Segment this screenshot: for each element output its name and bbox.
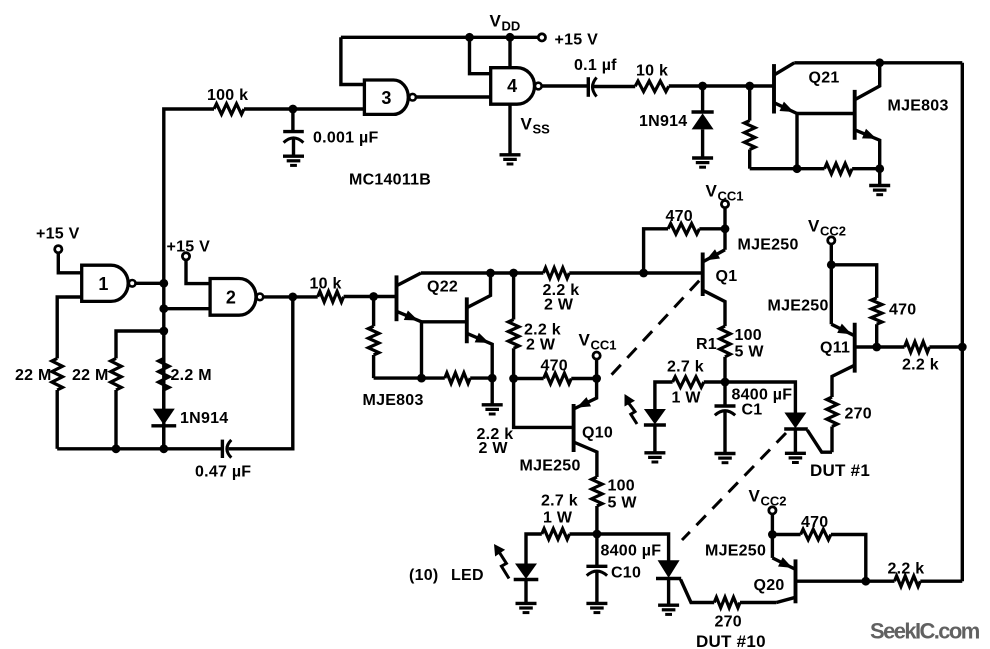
label 22 M (middle) (72, 367, 109, 384)
wire Q21a emitter down (795, 114, 798, 169)
svg-text:2.7 k: 2.7 k (541, 493, 578, 510)
label 270 (DUT10) (715, 614, 742, 631)
wire 22M middle to bottom rail (114, 390, 117, 449)
label MJE250 (Q1) (738, 237, 799, 254)
label Q1 (716, 268, 738, 285)
svg-text:MJE250: MJE250 (738, 237, 799, 254)
label Q11 (820, 340, 850, 357)
transistor Q11 base bar (853, 323, 857, 373)
wire 270 to DUT1 gate (830, 427, 833, 453)
transistor Q21a emitter (774, 102, 797, 114)
dashed link Q1 to LED (610, 281, 699, 377)
label +15 V (gate 2) (167, 239, 211, 256)
wire Q21a emitter to Q21b base (797, 112, 855, 115)
resistor 470 (Q20) (801, 529, 831, 540)
junction (node A) (721, 378, 730, 387)
wire cap to 10k (594, 85, 635, 88)
svg-text:MC14011B: MC14011B (349, 172, 431, 189)
resistor 2.2 k 2 W (Q22 emitter) (445, 373, 470, 384)
label gate 2 pin number (226, 288, 236, 308)
wire LED1 to ground (653, 425, 656, 452)
junction (827, 260, 836, 269)
svg-text:Q10: Q10 (582, 425, 613, 442)
transistor Q20 collector (776, 597, 795, 602)
label Vcc2 (Q11) (808, 217, 846, 239)
transistor Q21a base bar (772, 64, 776, 113)
svg-text:1 W: 1 W (543, 510, 573, 527)
resistor 100 5 W (Q10) (592, 477, 603, 506)
svg-text:CC1: CC1 (591, 338, 617, 353)
junction (288, 293, 297, 302)
svg-text:R1: R1 (696, 336, 717, 353)
label 470 (Q20) (801, 514, 828, 531)
transistor Q21a collector (774, 63, 794, 75)
label 1N914 (top) (639, 113, 687, 130)
svg-text:MJE803: MJE803 (888, 98, 949, 115)
wire 2.2M to diode (162, 390, 165, 409)
wire Vcc2 down (830, 244, 833, 324)
label 22 M (left) (15, 367, 52, 384)
svg-text:3: 3 (381, 88, 391, 108)
label 2.7 k (LED10) (541, 493, 578, 510)
label C10 (611, 565, 641, 582)
junction (875, 58, 884, 67)
svg-text:470: 470 (889, 302, 916, 319)
wire node to 22M (middle) (116, 331, 164, 358)
junction (639, 269, 648, 278)
junction (node 10) (593, 530, 602, 539)
LED 1 light arrow (625, 394, 638, 424)
svg-text:0.47 µF: 0.47 µF (195, 464, 251, 481)
wire 270 to Q20 collector (740, 601, 776, 604)
resistor 270 (DUT10) (714, 597, 740, 608)
label 2 W (vertical) (526, 337, 556, 354)
power terminal +15 V (gate 1) (55, 246, 62, 253)
wire Vcc2 node to 470 (Q20) (772, 533, 800, 536)
svg-text:Q1: Q1 (716, 268, 738, 285)
wire bottom rail left (57, 447, 222, 450)
resistor 2.7 k 1 W (LED10) (542, 529, 570, 540)
label 2.2 k (emitter) (477, 426, 514, 443)
svg-text:MJE803: MJE803 (363, 392, 424, 409)
resistor 2.2 k 2 W (rail) (543, 268, 569, 279)
wire +15V to gate1 upper input (58, 253, 81, 273)
svg-text:10 k: 10 k (310, 276, 342, 293)
junction (721, 224, 730, 233)
nand gate U1 (82, 265, 136, 301)
junction (509, 269, 518, 278)
svg-text:22 M: 22 M (15, 367, 52, 384)
transistor Q22b collector (467, 273, 491, 308)
ground (Q22) (482, 405, 503, 414)
capacitor 0.001 uF stem (291, 109, 294, 132)
wire to ground (Q22) (491, 378, 494, 404)
wire +15V to gate2 upper input (186, 260, 210, 284)
capacitor 0.001 uF lower stem (292, 138, 295, 156)
svg-text:2.2 k: 2.2 k (888, 561, 925, 578)
wire emitter res to gnd node (852, 167, 880, 170)
resistor 10 k (gate2 output) (318, 291, 344, 302)
svg-text:1: 1 (98, 274, 108, 294)
label VSS (521, 115, 551, 137)
resistor 10 k (top) (635, 81, 669, 92)
diode 1N914 (top) (692, 86, 714, 157)
wire 470 to base node (875, 324, 878, 347)
svg-text:100 k: 100 k (207, 87, 248, 104)
svg-text:0.1 µf: 0.1 µf (574, 57, 617, 74)
svg-text:Q21: Q21 (809, 70, 840, 87)
wire 470 to Vcc1 node (571, 377, 596, 380)
capacitor 0.47 uF (222, 440, 231, 458)
label 5 W (R1) (735, 344, 765, 361)
ground (1N914 top) (692, 158, 713, 167)
wire to 470 (Q10) (514, 377, 544, 380)
wire gate4 output (542, 84, 589, 87)
label 8400 uF (C1) (732, 387, 793, 404)
svg-text:+15 V: +15 V (167, 239, 211, 256)
svg-text:Q22: Q22 (427, 279, 458, 296)
junction (159, 304, 168, 313)
svg-text:CC2: CC2 (761, 494, 787, 509)
transistor Q1 collector (703, 290, 725, 326)
wire 10k to Q21 base (669, 84, 774, 87)
ground (gate 4 VSS) (500, 155, 521, 164)
label 10 k (top) (636, 63, 668, 80)
ground (DUT10) (658, 605, 679, 614)
wire Q22a emitter down (420, 322, 423, 378)
wire node10 to DUT10 (597, 534, 669, 561)
wire collector rail (Q22 to 2.2k) (421, 271, 543, 274)
label 0.47 uF (195, 464, 251, 481)
label gate 1 pin number (98, 274, 108, 294)
wire nodeA to 2.7k (704, 380, 725, 383)
svg-text:MJE250: MJE250 (705, 543, 766, 560)
junction (861, 577, 870, 586)
label 270 (Q11) (845, 406, 872, 423)
svg-text:2: 2 (226, 288, 236, 308)
svg-text:1N914: 1N914 (180, 410, 228, 427)
wire Vcc1 to Q1 emitter node (723, 208, 726, 250)
wire Q21 collector rail (794, 61, 962, 64)
junction (592, 374, 601, 383)
label MC14011B (349, 172, 431, 189)
label VDD (490, 12, 521, 34)
transistor Q10 emitter (574, 379, 597, 410)
junction (958, 343, 967, 352)
transistor Q22a emitter (397, 311, 422, 322)
resistor R1 100 5 W (720, 326, 731, 357)
svg-text:DUT #10: DUT #10 (696, 632, 766, 649)
wire DUT10 cathode to ground (667, 579, 670, 605)
wire emitter resistor to ground node (470, 376, 492, 379)
ground (0.001 uF) (283, 156, 304, 165)
label 2.2 M (171, 367, 212, 384)
SCR DUT #1 (784, 413, 808, 430)
resistor 22 M (left) (52, 358, 63, 390)
svg-text:DD: DD (502, 19, 521, 34)
svg-text:V: V (808, 217, 820, 236)
label 1 W (LED10) (543, 510, 573, 527)
label 2 W (emitter) (479, 440, 509, 457)
label Q21 (809, 70, 840, 87)
nand gate U3 (364, 80, 416, 114)
transistor Q20 emitter (772, 557, 795, 569)
junction (159, 327, 168, 336)
ground (DUT1) (785, 453, 806, 462)
label R1 (696, 336, 717, 353)
wire to ground (Q21) (878, 169, 881, 185)
transistor Q22b base bar (465, 297, 469, 343)
svg-text:CC1: CC1 (718, 189, 744, 204)
wire Q11 base to right rail (855, 345, 905, 348)
resistor 2.2 k (Q11) (905, 342, 930, 353)
wire 100k to gate 3 lower input (244, 107, 364, 110)
watermark SeekIC.com (870, 619, 980, 644)
ground (LED1) (644, 453, 665, 462)
resistor 100 k (214, 104, 244, 115)
wire bottom rail right + feedback up (229, 297, 293, 449)
power terminal +15 V (gate 2) (182, 253, 189, 260)
junction (159, 444, 168, 453)
svg-text:MJE250: MJE250 (520, 458, 581, 475)
svg-text:5 W: 5 W (735, 344, 765, 361)
label 470 (Q11) (889, 302, 916, 319)
junction (768, 530, 777, 539)
wire 2.7k to LED1 (655, 382, 673, 409)
resistor Q21 emitter (825, 163, 853, 174)
power terminal +15 V (top) (538, 34, 545, 41)
svg-text:Q11: Q11 (820, 340, 850, 357)
wire Vcc2 node to 470 (831, 265, 876, 298)
svg-text:270: 270 (715, 614, 742, 631)
nand gate U2 (210, 279, 263, 316)
junction (289, 105, 298, 114)
power terminal Vcc2 (Q11) (828, 237, 835, 244)
transistor Q11 collector (832, 365, 855, 397)
LED (10) light arrow (494, 544, 509, 579)
resistor 270 (Q11) (827, 397, 838, 427)
wire Q22 bottom rail (374, 376, 445, 379)
wire 10k to Q22 base (344, 295, 397, 298)
label 0.001 uF (313, 130, 378, 147)
label MJE803 (Q22) (363, 392, 424, 409)
wire gate2 lower input (164, 307, 210, 310)
wire 2.7k to LED10 (526, 534, 542, 564)
label Vcc1 (Q10) (579, 331, 617, 353)
label MJE250 (Q20) (705, 543, 766, 560)
label 8400 uF (C10) (601, 543, 662, 560)
svg-text:CC2: CC2 (820, 224, 846, 239)
svg-text:LED: LED (451, 567, 484, 584)
transistor Q21b emitter (855, 129, 880, 169)
resistor Q21 base-emitter (744, 86, 755, 169)
junction (872, 343, 881, 352)
svg-text:8400 µF: 8400 µF (601, 543, 662, 560)
svg-text:100: 100 (608, 478, 635, 495)
LED 1 triangle (644, 409, 666, 425)
transistor Q21b base bar (853, 90, 857, 140)
wire Vcc2 down (Q20) (771, 514, 774, 558)
label 2.7 k (LED1) (667, 359, 704, 376)
svg-text:SeekIC.com: SeekIC.com (870, 619, 980, 644)
wire Q10 base (514, 379, 574, 428)
resistor 470 (Q10) (544, 373, 572, 384)
junction (509, 374, 518, 383)
svg-text:+15 V: +15 V (555, 32, 599, 49)
wire gate3 output to gate4 input (416, 95, 491, 98)
transistor Q22b emitter (467, 333, 492, 378)
junction (506, 33, 515, 42)
label 2.2 k (rail) (543, 282, 580, 299)
SCR DUT #1 gate (807, 430, 832, 452)
label 470 (Q1) (666, 208, 693, 225)
label Q20 (754, 577, 785, 594)
wire 100k left + left rail (164, 109, 214, 449)
svg-text:V: V (490, 12, 502, 31)
SCR DUT #10 (656, 560, 681, 578)
label 100 k (207, 87, 248, 104)
wire Q22a emitter to Q22b base (422, 320, 467, 323)
transistor Q22a base bar (395, 275, 399, 321)
wire 2.2k to right rail corner (920, 580, 962, 583)
nand gate U4 (491, 68, 542, 105)
svg-text:0.001 µF: 0.001 µF (313, 130, 378, 147)
capacitor 0.001 uF plates (283, 132, 304, 143)
label 470 (Q10) (541, 358, 568, 375)
svg-text:2.2 M: 2.2 M (171, 367, 212, 384)
label Q22 (427, 279, 458, 296)
wire feedback left down to gate 3 input (341, 37, 365, 84)
junction (698, 82, 707, 91)
label MJE803 (Q21) (888, 98, 949, 115)
wire VDD pin of gate 4 (508, 37, 511, 67)
label 2.2 k (Q20) (888, 561, 925, 578)
wire gate1 lower input to 22M (57, 297, 81, 358)
svg-text:2 W: 2 W (479, 440, 509, 457)
ground (C10) (586, 603, 607, 612)
wire gate4 upper input (470, 37, 491, 73)
label 100 (Q10) (608, 478, 635, 495)
svg-text:V: V (749, 487, 761, 506)
label MJE250 (Q11) (768, 298, 829, 315)
junction (159, 279, 168, 288)
junction (793, 164, 802, 173)
svg-text:V: V (521, 115, 533, 134)
wire 470 to corner down (Q20) (831, 535, 866, 582)
junction (Q21 base node) (745, 82, 754, 91)
power terminal Vcc1 (Q1) (721, 201, 728, 208)
svg-text:DUT #1: DUT #1 (810, 461, 870, 480)
junction (465, 33, 474, 42)
wire rail to Q1 base (569, 271, 702, 274)
svg-text:2 W: 2 W (544, 297, 574, 314)
svg-text:C1: C1 (742, 402, 763, 419)
label 1 W (LED1) (672, 390, 702, 407)
wire gate2 output (263, 295, 318, 298)
power terminal Vcc2 (Q20) (769, 507, 776, 514)
svg-text:Q20: Q20 (754, 577, 785, 594)
wire nodeA to DUT1 (725, 382, 795, 413)
resistor Q22 base-emitter (368, 297, 379, 379)
svg-text:MJE250: MJE250 (768, 298, 829, 315)
wire DUT1 cathode to ground (794, 429, 797, 453)
label Vcc2 (Q20) (749, 487, 787, 509)
LED (10) triangle (514, 564, 539, 580)
capacitor 0.1 uf (588, 77, 596, 97)
transistor Q22a collector (397, 273, 422, 286)
wire VSS pin to ground (508, 104, 511, 154)
label Q10 (582, 425, 613, 442)
svg-text:10 k: 10 k (636, 63, 668, 80)
wire Q20 base to 2.2k (796, 580, 895, 583)
transistor Q1 base bar (701, 253, 705, 297)
label +15 V (top) (555, 32, 599, 49)
label 0.1 uf (574, 57, 617, 74)
wire 100 to node10 (595, 506, 598, 534)
svg-text:SS: SS (533, 122, 551, 137)
label C1 (742, 402, 763, 419)
wire diode to bottom rail (162, 426, 165, 449)
resistor 470 (Q11) (871, 298, 882, 324)
label MJE250 (Q10) (520, 458, 581, 475)
svg-text:4: 4 (507, 76, 517, 96)
resistor 470 (Q1) (644, 224, 725, 274)
svg-text:470: 470 (801, 514, 828, 531)
transistor Q21b collector (855, 63, 880, 100)
resistor 2.2 k 2 W (vertical) (508, 273, 519, 379)
junction (112, 444, 121, 453)
label 2.2 k (vertical) (524, 322, 561, 339)
svg-text:2 W: 2 W (526, 337, 556, 354)
label gate 3 pin number (381, 88, 391, 108)
svg-text:V: V (579, 331, 591, 350)
ground (C1) (715, 454, 736, 463)
transistor Q11 emitter (831, 324, 854, 336)
wire 2.2k to right rail (929, 345, 962, 348)
label 10 k (gate2) (310, 276, 342, 293)
junction (488, 374, 497, 383)
resistor 22 M (middle) (111, 358, 122, 390)
capacitor C1 8400 uF (715, 382, 736, 453)
svg-text:1N914: 1N914 (639, 113, 687, 130)
svg-text:470: 470 (541, 358, 568, 375)
label gate 4 pin number (507, 76, 517, 96)
svg-text:470: 470 (666, 208, 693, 225)
svg-text:C10: C10 (611, 565, 641, 582)
junction (486, 269, 495, 278)
junction (Q22 base node) (369, 292, 378, 301)
transistor Q10 collector (574, 442, 597, 477)
capacitor C10 8400 uF (586, 534, 607, 603)
svg-text:1 W: 1 W (672, 390, 702, 407)
label (10) LED (409, 567, 484, 584)
svg-text:V: V (706, 182, 718, 201)
diode 1N914 (oscillator) (151, 409, 176, 426)
label 5 W (Q10) (608, 495, 638, 512)
label Vcc1 (Q1) (706, 182, 744, 204)
svg-text:5 W: 5 W (608, 495, 638, 512)
transistor Q20 base bar (794, 559, 798, 603)
wire top rail VDD (341, 36, 538, 39)
junction (875, 164, 884, 173)
svg-text:2.2 k: 2.2 k (902, 357, 939, 374)
label DUT #1 (810, 461, 870, 480)
svg-text:2.7 k: 2.7 k (667, 359, 704, 376)
svg-text:100: 100 (735, 327, 762, 344)
junction (417, 374, 426, 383)
wire Vcc1 to node (595, 359, 598, 378)
svg-text:22 M: 22 M (72, 367, 109, 384)
